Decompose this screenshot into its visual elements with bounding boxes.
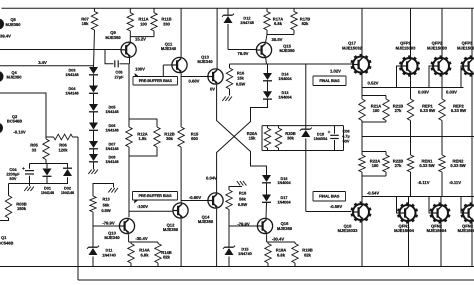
wire R17 bottoms to Q15 collector <box>266 35 294 43</box>
svg-text:1N4148: 1N4148 <box>65 73 78 77</box>
transistor Q12 MJE350 <box>163 203 188 267</box>
diode D15 1N4740 zener <box>223 246 252 267</box>
svg-text:-30.4V: -30.4V <box>135 236 148 241</box>
voltage label 0.60V <box>189 79 200 84</box>
resistor R16 15k 0.5W <box>226 64 245 96</box>
svg-text:PRE-BUFFER BIAS: PRE-BUFFER BIAS <box>139 79 173 83</box>
svg-text:D07: D07 <box>109 143 116 147</box>
svg-text:120k: 120k <box>58 147 68 152</box>
callout PRE-BUFFER BIAS lower <box>133 192 178 204</box>
svg-text:-0.11V: -0.11V <box>417 180 429 185</box>
wire Q9 emitter to node <box>129 57 131 64</box>
svg-text:-0.56V: -0.56V <box>330 204 343 209</box>
resistor R11B 330 <box>151 8 172 36</box>
svg-text:MJE350: MJE350 <box>7 75 23 80</box>
resistor REN1 0.33 5W <box>407 155 434 197</box>
svg-text:FINAL BIAS: FINAL BIAS <box>319 195 340 199</box>
wire Q16 emitter bus <box>267 234 295 243</box>
voltage label 1.02V <box>330 68 341 73</box>
svg-text:1.5k: 1.5k <box>139 136 148 141</box>
svg-text:1N4148: 1N4148 <box>41 191 54 195</box>
voltage label 0V <box>210 87 215 92</box>
svg-text:1N4004: 1N4004 <box>278 95 292 99</box>
svg-text:0.5W: 0.5W <box>236 81 246 86</box>
svg-text:1N4748: 1N4748 <box>240 20 254 25</box>
svg-text:D13: D13 <box>282 91 289 95</box>
voltage label 39.4V <box>0 34 11 39</box>
wire output/mid rail upper (x362-474 y136.5) <box>362 136 474 138</box>
svg-text:MJE15033: MJE15033 <box>338 228 359 233</box>
svg-text:30.5V: 30.5V <box>272 37 283 42</box>
diode D02 1N4148 <box>61 168 74 195</box>
resistor R12A 1.5k <box>126 127 148 147</box>
transistor Q1 labels (edge clipped) <box>0 235 13 245</box>
wire Q2 collector horizontal y93 <box>0 93 46 137</box>
svg-text:MJE15004: MJE15004 <box>427 228 448 233</box>
callout FINAL BIAS upper <box>313 76 346 86</box>
wire node A horizontal y65.8 to diode chain <box>0 66 94 67</box>
transistor Q15 MJE350 <box>228 42 295 57</box>
voltage label 0.04V <box>206 175 217 180</box>
resistor R03B 150k <box>0 184 30 221</box>
svg-text:30k: 30k <box>166 136 174 141</box>
voltage label -79.9V right <box>237 222 250 227</box>
voltage label -0.54V <box>367 190 380 195</box>
svg-text:0.33 5W: 0.33 5W <box>450 163 465 168</box>
wire R06 to left drop <box>73 136 79 138</box>
wire Q9 base from left edge <box>0 49 121 51</box>
voltage label 0.03V second <box>446 89 457 94</box>
svg-text:R13: R13 <box>102 197 110 202</box>
callout FINAL BIAS lower <box>313 192 346 202</box>
diode D17 1N4004 <box>262 183 292 218</box>
wire driver node y64 to Q17 base <box>230 63 353 65</box>
wire R21 bottom bus to rail <box>362 122 386 152</box>
transistor Q5 (edge clipped) <box>0 17 21 29</box>
resistor REP1 0.33 5W <box>407 75 435 156</box>
wire Q15 emitter to driver node <box>265 57 268 64</box>
svg-text:D02: D02 <box>64 186 71 190</box>
svg-text:6.8k: 6.8k <box>277 252 286 257</box>
svg-text:27pF: 27pF <box>114 74 124 79</box>
wire driver rail lower (x362-474 y196.5) <box>362 196 474 198</box>
ground below R16 <box>222 97 232 102</box>
power transistor QFN3 MJE15004 <box>458 197 474 267</box>
transistor Q14 MJE350 <box>181 193 223 267</box>
svg-text:33: 33 <box>32 147 37 152</box>
svg-text:82k: 82k <box>302 21 310 26</box>
svg-text:82k: 82k <box>163 255 171 260</box>
svg-text:4.7µ: 4.7µ <box>342 134 349 138</box>
svg-text:-30.4V: -30.4V <box>272 237 285 242</box>
svg-text:0.60V: 0.60V <box>189 79 200 84</box>
voltage label 3.4V <box>38 60 47 65</box>
diode D06 1N4148 <box>89 123 119 142</box>
diode D16 1N4004 <box>262 175 292 185</box>
resistor R19B 82k <box>292 244 313 267</box>
svg-text:1N4148: 1N4148 <box>65 92 78 96</box>
svg-text:50V: 50V <box>343 139 350 143</box>
wire Q15 node down to bank <box>305 64 307 126</box>
svg-text:600: 600 <box>191 136 199 141</box>
capacitor C05 27pF <box>105 50 130 80</box>
diode D14 1N4004 <box>263 64 293 81</box>
resistor R15 600 <box>178 73 199 203</box>
svg-text:100: 100 <box>372 163 380 168</box>
svg-text:-100V: -100V <box>137 204 148 209</box>
wire R12B top elbow <box>129 119 157 127</box>
wire negative rail lower (y280) <box>78 279 474 281</box>
resistor R21B 27k <box>383 96 403 123</box>
transistor Q9 MJE350 <box>105 30 136 57</box>
svg-text:D01: D01 <box>44 186 51 190</box>
svg-text:PRE-BUFFER BIAS: PRE-BUFFER BIAS <box>138 194 172 198</box>
transistor Q18 MJE15033 <box>338 197 372 267</box>
svg-text:0V: 0V <box>210 87 215 92</box>
svg-text:MJE350: MJE350 <box>105 35 121 40</box>
voltage label -100V <box>137 204 148 209</box>
svg-text:R18: R18 <box>239 191 247 196</box>
svg-text:-0.13V: -0.13V <box>13 130 26 135</box>
diode D04 1N4148 <box>65 86 98 105</box>
transistor Q16 MJE350 <box>257 218 292 233</box>
svg-text:D03: D03 <box>69 69 76 73</box>
resistor R07 15k <box>81 8 97 67</box>
power transistor QFP3 MJE15003 <box>457 8 474 76</box>
svg-text:-79.9V: -79.9V <box>102 220 115 225</box>
voltage label -79.9V left <box>102 220 115 225</box>
svg-text:Q1: Q1 <box>1 235 7 240</box>
svg-text:82k: 82k <box>304 252 312 257</box>
wire QFP2 base stub <box>429 66 433 88</box>
voltage label 100V <box>135 67 145 72</box>
svg-text:1N4740: 1N4740 <box>102 252 116 257</box>
voltage label -0.60V <box>189 195 202 200</box>
voltage label 0.03V first <box>418 89 429 94</box>
wire D13 cross to Q14 collector <box>217 99 268 193</box>
resistor R11A 100 <box>127 8 149 36</box>
svg-text:0.5W: 0.5W <box>238 202 248 207</box>
svg-text:1N4004: 1N4004 <box>314 136 328 141</box>
diode D05 1N4148 <box>89 104 119 123</box>
svg-text:-0.11V: -0.11V <box>449 180 461 185</box>
svg-text:0.33 5W: 0.33 5W <box>419 163 434 168</box>
svg-text:0.5W: 0.5W <box>101 208 111 213</box>
resistor R18 56k 0.5W <box>226 181 248 248</box>
wire bias bank loop <box>262 126 344 151</box>
svg-text:30k: 30k <box>287 136 295 141</box>
wire R22 bottom bus to rail <box>362 176 386 197</box>
svg-text:0.33 5W: 0.33 5W <box>451 108 466 113</box>
wire QFN2 base stub <box>429 197 432 214</box>
resistor REN2 0.33 5W <box>439 155 466 197</box>
callout PRE-BUFFER BIAS upper <box>133 73 178 85</box>
svg-text:MJE350: MJE350 <box>198 219 214 224</box>
svg-text:BC546B: BC546B <box>0 240 13 245</box>
svg-text:MJE350: MJE350 <box>6 22 22 27</box>
voltage label -0.56V <box>330 204 343 209</box>
diode D08 1N4148 <box>89 154 119 164</box>
wire QFP3 emitter drop <box>471 75 473 205</box>
wire Q10 emitter bus <box>129 234 158 243</box>
transistor Q11 MJE340 <box>161 8 187 72</box>
voltage label 30.5V <box>272 37 283 42</box>
resistor R19A 6.8k <box>265 244 286 267</box>
voltage label -30.4V right <box>272 237 285 242</box>
svg-text:1N4148: 1N4148 <box>105 160 118 164</box>
svg-text:D17: D17 <box>281 196 288 200</box>
wire Q18 base <box>306 211 352 213</box>
svg-text:100V: 100V <box>135 67 145 72</box>
svg-text:1N4004: 1N4004 <box>277 181 291 185</box>
svg-text:MJE350: MJE350 <box>163 227 179 232</box>
diode D12 1N4748 zener <box>222 8 255 49</box>
wire R05/R06 junction <box>46 136 54 138</box>
voltage label -0.13V <box>13 130 26 135</box>
wire left drop to lower rail <box>77 137 79 280</box>
svg-text:50V: 50V <box>10 176 17 181</box>
svg-text:BC546B: BC546B <box>7 119 22 124</box>
svg-text:MJE340: MJE340 <box>161 46 177 51</box>
resistor R14A 6.8k <box>128 244 150 267</box>
resistor R06 with value 120k <box>54 134 73 152</box>
svg-text:15.2V: 15.2V <box>135 37 146 42</box>
svg-text:1N4148: 1N4148 <box>105 147 118 151</box>
svg-text:1N4148: 1N4148 <box>105 110 118 114</box>
resistor R05 with value 33 <box>30 137 49 164</box>
svg-text:56k: 56k <box>239 196 246 201</box>
voltage label -0.11V second <box>449 180 461 185</box>
wire R22 top bus <box>362 151 386 153</box>
svg-text:D14: D14 <box>282 73 290 77</box>
diode D11 1N4740 zener <box>87 246 116 267</box>
resistor R22A 100 <box>359 152 380 177</box>
svg-text:+: + <box>328 129 331 134</box>
svg-text:1N4740: 1N4740 <box>238 251 252 256</box>
voltage label 15.2V <box>135 37 146 42</box>
wire R21 top bus <box>362 95 386 97</box>
wire x129 to Q10 collector <box>128 147 130 217</box>
svg-text:D16: D16 <box>281 177 288 181</box>
svg-text:1N4148: 1N4148 <box>61 191 74 195</box>
diode D03 1N4148 <box>65 67 98 86</box>
wire Q16 base <box>229 225 257 227</box>
resistor REP2 0.33 5W <box>439 75 466 156</box>
capacitor C04 2200uF electrolytic <box>6 166 34 181</box>
resistor R17A 6.8k <box>264 8 283 34</box>
svg-text:D06: D06 <box>109 124 116 128</box>
svg-text:D04: D04 <box>69 87 77 91</box>
wire QFN1 base stub <box>397 197 400 214</box>
transistor Q17 MJE15032 <box>342 8 371 75</box>
svg-text:MJE350: MJE350 <box>277 226 293 231</box>
power transistor QFP2 MJE15003 <box>427 8 451 76</box>
wire R11 bottoms to Q9 collector <box>130 37 154 43</box>
voltage label -0.11V first <box>417 180 429 185</box>
capacitor C08 4.7uF electrolytic <box>328 126 350 151</box>
resistor R20A 15k <box>247 126 271 151</box>
voltage label 79.9V <box>238 51 249 56</box>
transistor Q4 (edge clipped) <box>0 70 22 82</box>
svg-text:-0.54V: -0.54V <box>367 190 380 195</box>
resistor R14B 82k <box>155 244 172 267</box>
svg-text:MJE15004: MJE15004 <box>394 228 415 233</box>
resistor R22B 27k <box>383 152 403 177</box>
wire QFP1 base stub <box>397 66 402 88</box>
resistor R13 56k 0.5W <box>90 184 118 248</box>
resistor R17B 82k <box>291 8 310 34</box>
svg-text:1N4004: 1N4004 <box>277 200 291 204</box>
transistor Q2 (edge clipped) <box>0 114 22 134</box>
diode D13 1N4004 <box>263 81 293 99</box>
svg-text:MJE15032: MJE15032 <box>342 45 363 50</box>
wire bias network loop <box>30 164 69 184</box>
svg-text:MJE15004: MJE15004 <box>458 228 474 233</box>
wire QFP3 base stub <box>461 66 463 88</box>
svg-text:0.52V: 0.52V <box>368 80 379 85</box>
svg-text:1N4148: 1N4148 <box>105 129 118 133</box>
svg-text:150k: 150k <box>17 206 27 211</box>
diode D07 1N4148 <box>89 141 119 154</box>
svg-text:15k: 15k <box>237 76 244 81</box>
svg-text:6.8k: 6.8k <box>141 252 150 257</box>
ground below D08 <box>88 163 98 175</box>
wire Q12 base <box>129 210 173 212</box>
svg-text:330: 330 <box>163 21 171 26</box>
svg-text:15k: 15k <box>249 136 257 141</box>
svg-text:27k: 27k <box>395 163 403 168</box>
ground below C04 <box>24 184 34 192</box>
wire Q11 base drop <box>163 65 172 77</box>
wire negative rail upper (y266.5) <box>0 266 474 268</box>
svg-text:6.8k: 6.8k <box>274 21 283 26</box>
wire Q10 base <box>93 225 119 227</box>
svg-text:MJE350: MJE350 <box>279 48 295 53</box>
svg-text:1.02V: 1.02V <box>330 68 341 73</box>
resistor R12B 30k <box>129 127 175 156</box>
svg-text:0.04V: 0.04V <box>206 175 217 180</box>
svg-text:-0.60V: -0.60V <box>189 195 202 200</box>
resistor R20B 30k <box>275 126 295 151</box>
svg-text:0.33 5W: 0.33 5W <box>420 108 435 113</box>
wire Q13 emitter cross to D16 chain <box>217 85 267 175</box>
svg-text:39.4V: 39.4V <box>0 34 11 39</box>
wire QFN3 base stub <box>461 197 463 214</box>
svg-text:MJE15003: MJE15003 <box>457 45 474 50</box>
voltage label 0.52V <box>368 80 379 85</box>
svg-text:D08: D08 <box>109 156 116 160</box>
wire positive supply rail V+ <box>2 7 474 9</box>
diode D01 1N4148 <box>41 169 54 195</box>
svg-text:MJE340: MJE340 <box>197 59 213 64</box>
svg-text:0.03V: 0.03V <box>446 89 457 94</box>
svg-text:56k: 56k <box>103 202 110 207</box>
svg-text:100: 100 <box>140 21 148 26</box>
svg-text:MJE340: MJE340 <box>104 235 120 240</box>
transistor Q13 MJE340 <box>181 8 223 84</box>
diode D18 1N4004 zener <box>300 126 328 151</box>
svg-text:C08: C08 <box>343 129 350 133</box>
svg-text:MJE15003: MJE15003 <box>427 45 448 50</box>
svg-text:100: 100 <box>373 108 381 113</box>
transistor Q10 MJE340 <box>104 218 134 240</box>
power transistor QFN1 MJE15004 <box>394 197 418 267</box>
wire Q17 emitter / QFP base bus <box>362 73 464 95</box>
svg-text:27k: 27k <box>395 108 403 113</box>
voltage label -30.4V left <box>135 236 148 241</box>
power transistor QFN2 MJE15004 <box>427 197 451 267</box>
svg-text:D05: D05 <box>109 106 116 110</box>
wire VAS feed vertical x129 <box>128 64 130 127</box>
svg-text:79.9V: 79.9V <box>238 51 249 56</box>
svg-text:FINAL BIAS: FINAL BIAS <box>319 79 340 83</box>
svg-text:15k: 15k <box>82 21 90 26</box>
resistor R21A 100 <box>359 96 381 123</box>
svg-text:+: + <box>22 166 25 171</box>
svg-text:1N4004: 1N4004 <box>278 77 292 81</box>
svg-text:0.03V: 0.03V <box>418 89 429 94</box>
wire bank down to Q18 base wire <box>305 151 307 212</box>
svg-text:3.4V: 3.4V <box>38 60 47 65</box>
power transistor QFP1 MJE15003 <box>396 8 420 76</box>
svg-text:MJE15003: MJE15003 <box>396 45 417 50</box>
